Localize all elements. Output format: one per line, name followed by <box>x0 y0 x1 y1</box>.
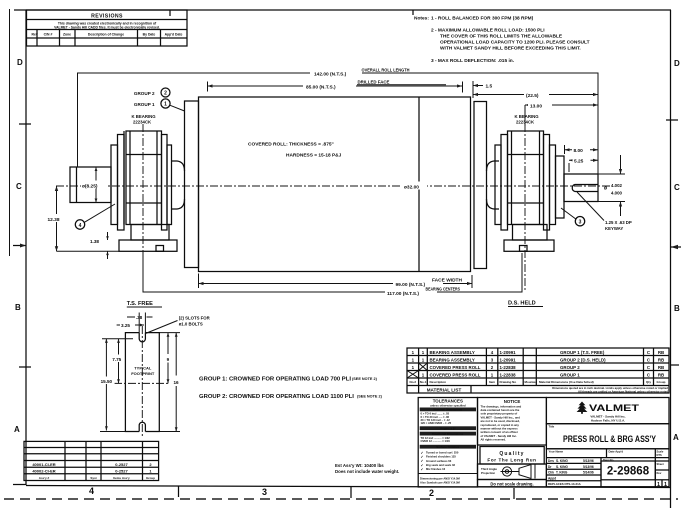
svg-text:1.38: 1.38 <box>90 239 99 244</box>
svg-text:Scale: Scale <box>657 450 664 454</box>
svg-text:C: C <box>674 183 680 192</box>
svg-text:D: D <box>17 58 23 67</box>
zone letter A left <box>14 425 20 434</box>
svg-text:Drawing No: Drawing No <box>500 380 517 384</box>
svg-text:Notes:: Notes: <box>414 16 429 22</box>
svg-text:12.38: 12.38 <box>48 217 60 223</box>
footprint centerlines <box>114 326 170 438</box>
svg-text:4.002: 4.002 <box>611 183 623 188</box>
svg-text:Ground surfaces 63: Ground surfaces 63 <box>426 459 452 463</box>
svg-text:(SEE NOTE 2): (SEE NOTE 2) <box>357 395 383 399</box>
zone tick top 2 <box>412 10 414 15</box>
label T.S. FREE <box>127 301 162 307</box>
svg-text:Also Symbols per ANSI Y14.5M: Also Symbols per ANSI Y14.5M <box>420 480 460 484</box>
svg-text:Rev: Rev <box>32 33 38 37</box>
svg-text:REVISIONS: REVISIONS <box>91 14 123 20</box>
svg-text:Description: Description <box>430 380 447 384</box>
svg-text:VALMET - Sandy Hill CADD files: VALMET - Sandy Hill CADD files. It must … <box>54 26 160 30</box>
right head plate <box>474 102 487 269</box>
svg-text:.38: .38 <box>136 315 143 320</box>
revisions table <box>27 10 188 46</box>
left bearing pedestal <box>119 225 177 252</box>
zone letter B left <box>15 303 21 312</box>
valmet logo block <box>546 398 669 424</box>
right bearing housing <box>495 131 564 230</box>
quality slogan box <box>480 447 544 465</box>
svg-text:For The Long Run: For The Long Run <box>487 458 536 463</box>
svg-text:(22.5): (22.5) <box>526 93 539 99</box>
zone number 3 bottom <box>262 487 267 497</box>
svg-text:1-22838: 1-22838 <box>500 365 517 370</box>
dim 117.00 bearing centers <box>143 251 522 296</box>
svg-text:Projection: Projection <box>481 471 495 475</box>
svg-text:BEARING CENTERS: BEARING CENTERS <box>426 286 461 291</box>
svg-text:Ass'y #: Ass'y # <box>39 476 50 480</box>
svg-text:1-20991: 1-20991 <box>500 358 517 363</box>
svg-text:GROUP 1: CROWNED FOR OPERATI: GROUP 1: CROWNED FOR OPERATING LOAD 700 … <box>199 377 351 383</box>
svg-text:RB: RB <box>658 365 664 370</box>
footprint outline with slots <box>125 333 159 432</box>
svg-text:Appd: Appd <box>548 476 556 480</box>
svg-text:COVERED PRESS ROLL: COVERED PRESS ROLL <box>430 365 481 370</box>
signature rows <box>546 449 669 487</box>
svg-text:Mic finishes 16: Mic finishes 16 <box>426 467 446 471</box>
zone letter D right <box>674 59 680 68</box>
zone letter A right <box>673 433 679 442</box>
dim (22.5) <box>473 91 598 100</box>
zone letter C right <box>674 183 680 192</box>
svg-text:7.75: 7.75 <box>112 357 121 362</box>
footprint label <box>131 366 155 377</box>
svg-text:PRESS ROLL & BRG ASS'Y: PRESS ROLL & BRG ASS'Y <box>563 434 656 444</box>
group crown notes <box>199 377 383 401</box>
svg-text:Rev: Rev <box>657 471 662 475</box>
left bearing housing <box>111 131 172 230</box>
svg-text:GROUP 2: GROUP 2 <box>134 91 155 96</box>
dim 9 right <box>167 333 170 384</box>
svg-text:By Date: By Date <box>143 33 156 37</box>
svg-text:3: 3 <box>262 487 267 497</box>
svg-text:GROUP 1 (T.S. FREE): GROUP 1 (T.S. FREE) <box>560 350 605 355</box>
left bearing centerline vertical <box>142 124 144 292</box>
svg-text:Sheet: Sheet <box>657 462 664 466</box>
main horizontal centerline <box>56 185 612 187</box>
svg-text:Do not scale drawing.: Do not scale drawing. <box>490 481 533 486</box>
sheet edge bottom dashed <box>4 498 678 500</box>
shaft diameter dim 4.002/4.000 <box>598 155 625 216</box>
zone letter C left <box>16 182 22 191</box>
svg-text:THE COVER OF THIS ROLL LIMITS: THE COVER OF THIS ROLL LIMITS THE ALLOWA… <box>440 34 563 40</box>
svg-text:85.00 (N.T.S.): 85.00 (N.T.S.) <box>306 84 336 90</box>
svg-text:Nominal Dimensions: Nominal Dimensions <box>434 408 463 412</box>
dim .38 slot <box>127 313 153 333</box>
left head plate <box>185 101 199 268</box>
svg-text:Des: Des <box>548 459 554 463</box>
label D.S. HELD <box>508 301 543 307</box>
svg-text:All rights reserved.: All rights reserved. <box>481 438 507 442</box>
svg-text:0-2527: 0-2527 <box>115 469 128 474</box>
svg-text:COVERED ROLL: THICKNESS =: COVERED ROLL: THICKNESS = .875" <box>248 142 334 148</box>
dim 8.00 <box>565 145 599 154</box>
svg-text:15.50: 15.50 <box>101 379 113 384</box>
dim 7.75 <box>111 339 124 384</box>
svg-text:D.S. HELD: D.S. HELD <box>508 301 536 307</box>
svg-text:COVERED PRESS ROLL: COVERED PRESS ROLL <box>430 373 481 378</box>
svg-text:No.1: No.1 <box>420 380 427 384</box>
notes block <box>414 16 590 65</box>
left shaft diameter dim 8.25 <box>81 167 108 203</box>
svg-text:16: 16 <box>174 380 180 385</box>
svg-text:5/13/96: 5/13/96 <box>583 465 594 469</box>
third angle projection box <box>478 464 547 480</box>
svg-text:8.00: 8.00 <box>574 148 584 154</box>
svg-text:WITH VALMET SANDY HILL BEFORE: WITH VALMET SANDY HILL BEFORE EXCEEDING … <box>440 46 581 52</box>
estimated weight note <box>335 463 399 474</box>
svg-text:No.2: No.2 <box>410 380 417 384</box>
zone tick bottom 4/3 <box>178 486 180 497</box>
right bearing pedestal <box>504 225 554 252</box>
svg-text:KEYWAY: KEYWAY <box>605 226 623 231</box>
zone center arrow left <box>13 244 26 248</box>
zone tick bottom 2/1 <box>513 488 515 499</box>
svg-text:Syst: Syst <box>90 476 96 480</box>
svg-text:FOOTPRINT: FOOTPRINT <box>131 371 155 376</box>
zone tick left upper <box>19 123 31 125</box>
svg-text:1-22838: 1-22838 <box>500 373 517 378</box>
group labels with balloons <box>134 88 185 111</box>
svg-text:GROUP 1: GROUP 1 <box>560 373 580 378</box>
svg-text:3.25: 3.25 <box>121 323 130 328</box>
roll cover note <box>248 142 342 159</box>
svg-text:A: A <box>14 425 20 434</box>
svg-text:Does not include water weight.: Does not include water weight. <box>335 469 399 474</box>
svg-text:1-20991: 1-20991 <box>500 350 517 355</box>
svg-text:RB: RB <box>658 350 664 355</box>
balloon 4 <box>75 204 115 229</box>
svg-text:B: B <box>15 303 21 312</box>
svg-text:Zone: Zone <box>63 33 71 37</box>
left bearing label <box>132 114 157 125</box>
zone letter D left <box>17 58 23 67</box>
svg-text:T. KING: T. KING <box>556 471 568 475</box>
dim 1.5 <box>473 81 493 98</box>
svg-text:1.5: 1.5 <box>486 84 493 90</box>
dim 99.00 face width <box>199 274 473 289</box>
svg-text:5.25: 5.25 <box>574 159 584 165</box>
dim 15.50 <box>100 339 133 432</box>
dim 85.00 drilled face <box>208 80 463 93</box>
svg-text:GROUP 2: GROUP 2 <box>560 365 580 370</box>
zone tick left lower <box>19 366 31 368</box>
svg-text:5/14/96: 5/14/96 <box>583 471 594 475</box>
svg-text:22234CK: 22234CK <box>516 120 535 125</box>
svg-text:App'd Date: App'd Date <box>165 33 183 37</box>
slots note with leader <box>146 316 211 334</box>
svg-text:3: 3 <box>579 220 582 226</box>
dim 5.25 <box>569 157 598 173</box>
svg-text:RB: RB <box>658 373 664 378</box>
svg-text:Group: Group <box>657 380 666 384</box>
svg-text:4: 4 <box>89 486 94 496</box>
keyway leader and label <box>577 192 632 231</box>
svg-text:2: 2 <box>164 91 167 97</box>
svg-text:1: 1 <box>664 482 667 488</box>
svg-text:C: C <box>16 182 22 191</box>
svg-text:Turned or bored surf. 250: Turned or bored surf. 250 <box>426 451 459 455</box>
svg-text:40002-CI-ER: 40002-CI-ER <box>32 469 55 474</box>
svg-text:Surface Finishes: Surface Finishes <box>436 445 460 449</box>
balloon 3 <box>561 208 585 226</box>
svg-text:0-2527: 0-2527 <box>115 462 128 467</box>
zone number 2 bottom <box>429 488 434 498</box>
svg-text:(2) SLOTS FOR: (2) SLOTS FOR <box>179 316 211 321</box>
sheet edge left partial <box>9 9 11 256</box>
svg-text:All threads are unified or Ame: All threads are unified or American Nati… <box>578 389 668 393</box>
svg-text:Material Dimensions (Use Data: Material Dimensions (Use Data Sched) <box>539 380 594 384</box>
svg-text:117.00 (N.T.S.): 117.00 (N.T.S.) <box>387 291 419 297</box>
svg-text:GROUP 2 (D.S. HELD): GROUP 2 (D.S. HELD) <box>560 358 606 363</box>
svg-text:OVERALL ROLL LENGTH: OVERALL ROLL LENGTH <box>362 67 410 72</box>
notice box <box>478 398 547 446</box>
dim 3.25 <box>117 323 144 328</box>
zone tick right lower <box>671 364 679 366</box>
right bearing label <box>515 114 540 125</box>
svg-text:2: 2 <box>429 488 434 498</box>
svg-text:1 - ROLL BALANCED FOR 300 FPM: 1 - ROLL BALANCED FOR 300 FPM (38 RPM) <box>431 16 534 22</box>
material list title row <box>427 386 669 393</box>
right shaft extension with keyway <box>564 174 598 202</box>
dim 142.00 overall roll length <box>78 67 599 176</box>
tolerances box <box>418 398 477 488</box>
dim 13.00 <box>525 101 598 126</box>
svg-text:Chk: Chk <box>548 471 554 475</box>
svg-text:120 > AND OVER .. ± .25: 120 > AND OVER .. ± .25 <box>421 421 452 425</box>
svg-text:22234CK: 22234CK <box>133 120 152 125</box>
svg-text:REPLACES NTS-13-21A: REPLACES NTS-13-21A <box>548 482 582 486</box>
svg-text:OVER 12 ............ ± 1/16: OVER 12 ............ ± 1/16 <box>421 439 451 443</box>
svg-text:S. KING: S. KING <box>556 465 568 469</box>
roll body <box>199 97 471 272</box>
svg-text:TYPICAL: TYPICAL <box>134 366 152 371</box>
svg-text:ø32.00: ø32.00 <box>404 185 419 191</box>
zone tick top 1 <box>169 10 171 16</box>
svg-text:1.25 X .63 DP: 1.25 X .63 DP <box>605 220 632 225</box>
svg-text:5/13/96: 5/13/96 <box>583 459 594 463</box>
svg-text:Item: Item <box>489 380 496 384</box>
svg-text:S. KING: S. KING <box>556 459 568 463</box>
svg-text:142.00 (N.T.S.): 142.00 (N.T.S.) <box>314 71 347 77</box>
dim 16 right <box>159 333 180 432</box>
title box <box>546 424 669 449</box>
svg-text:BEARING ASSEMBLY: BEARING ASSEMBLY <box>430 358 475 363</box>
svg-text:C/N #: C/N # <box>44 33 53 37</box>
assembly table bottom left <box>24 441 159 480</box>
svg-text:Angles ± 2°: Angles ± 2° <box>440 426 456 430</box>
svg-text:4.000: 4.000 <box>611 191 623 196</box>
svg-text:K BEARING: K BEARING <box>132 114 157 119</box>
svg-text:GROUP 2: CROWNED FOR OPERATI: GROUP 2: CROWNED FOR OPERATING LOAD 1100… <box>199 394 354 400</box>
svg-text:Brg seats and seals 32: Brg seats and seals 32 <box>426 463 455 467</box>
zone letter B right <box>674 304 680 313</box>
svg-text:ø1.0 BOLTS: ø1.0 BOLTS <box>179 322 203 327</box>
svg-text:✓: ✓ <box>421 467 424 471</box>
svg-text:Hudson Falls, NY U.S.A.: Hudson Falls, NY U.S.A. <box>591 418 625 422</box>
drawing number box <box>601 458 655 480</box>
svg-text:99.00 (N.T.S.): 99.00 (N.T.S.) <box>396 282 426 288</box>
svg-text:1: 1 <box>164 102 167 108</box>
svg-text:GROUP 1: GROUP 1 <box>134 102 155 107</box>
left shaft stub <box>70 167 111 203</box>
svg-text:Qty: Qty <box>646 380 651 384</box>
svg-text:2 - MAXIMUM ALLOWABLE ROLL LOA: 2 - MAXIMUM ALLOWABLE ROLL LOAD: 1500 PL… <box>431 28 545 34</box>
right journal fillets <box>487 161 500 209</box>
zone tick bottom 3/2 <box>350 487 352 498</box>
material list rows text <box>407 350 664 378</box>
svg-text:FACE WIDTH: FACE WIDTH <box>432 277 462 282</box>
svg-text:13.00: 13.00 <box>530 104 542 110</box>
svg-text:Date App'd: Date App'd <box>609 449 624 453</box>
roll diameter label <box>402 182 427 191</box>
right bearing centerline vertical <box>524 124 526 292</box>
zone tick right upper <box>666 119 678 121</box>
svg-text:Dimensioning per ANSI Y14.5M: Dimensioning per ANSI Y14.5M <box>420 477 460 481</box>
svg-text:Description of Change: Description of Change <box>88 33 124 37</box>
svg-text:BEARING ASSEMBLY: BEARING ASSEMBLY <box>430 350 475 355</box>
svg-text:1: 1 <box>657 482 660 488</box>
do not scale bar <box>478 480 547 487</box>
svg-text:Title: Title <box>549 425 555 429</box>
svg-text:Items Ass'y: Items Ass'y <box>113 476 130 480</box>
material list header row <box>410 380 666 384</box>
svg-text:(SEE NOTE 2): (SEE NOTE 2) <box>352 377 378 381</box>
svg-text:Est Ass'y Wt: 10400 lbs: Est Ass'y Wt: 10400 lbs <box>335 463 384 468</box>
svg-text:K BEARING: K BEARING <box>515 114 540 119</box>
svg-text:Mounted: Mounted <box>525 380 538 384</box>
svg-text:Your Name: Your Name <box>549 449 564 453</box>
svg-text:2-29868: 2-29868 <box>607 466 650 478</box>
svg-text:Quality: Quality <box>499 451 524 457</box>
svg-text:9: 9 <box>167 357 170 362</box>
zone center arrow right <box>671 245 681 250</box>
svg-text:MATERIAL LIST: MATERIAL LIST <box>427 387 462 392</box>
svg-text:NOTICE: NOTICE <box>504 399 521 404</box>
svg-text:DRILLED FACE: DRILLED FACE <box>358 80 390 85</box>
svg-text:T.S. FREE: T.S. FREE <box>127 301 153 307</box>
svg-text:ø(8.25): ø(8.25) <box>82 184 98 190</box>
material list table <box>407 348 669 393</box>
svg-text:40001-CI-ER: 40001-CI-ER <box>32 462 55 467</box>
svg-text:RB: RB <box>658 358 664 363</box>
scale sheet cells <box>655 449 669 488</box>
svg-text:VALMET: VALMET <box>589 403 640 413</box>
svg-text:A: A <box>673 433 679 442</box>
svg-text:B: B <box>674 304 680 313</box>
left journal fillets <box>172 161 185 209</box>
svg-text:NTS: NTS <box>657 453 662 457</box>
base plate dim 1.38 <box>90 232 109 259</box>
svg-text:4: 4 <box>79 223 82 229</box>
svg-text:Fractional Dimensions: Fractional Dimensions <box>432 432 463 436</box>
zone number 4 bottom <box>89 486 94 496</box>
svg-text:3 - MAX ROLL DEFLECTION: .015: 3 - MAX ROLL DEFLECTION: .015 in. <box>431 58 514 64</box>
svg-text:OPERATIONAL LOAD CAPACITY TO 1: OPERATIONAL LOAD CAPACITY TO 1200 PLI. P… <box>440 40 590 46</box>
svg-text:Finished shoulders 125: Finished shoulders 125 <box>426 455 456 459</box>
svg-text:Group: Group <box>146 476 155 480</box>
svg-text:D: D <box>674 59 680 68</box>
svg-text:HARDNESS = 15-18 P&J: HARDNESS = 15-18 P&J <box>286 153 342 159</box>
base height dim 12.38 <box>46 186 119 251</box>
